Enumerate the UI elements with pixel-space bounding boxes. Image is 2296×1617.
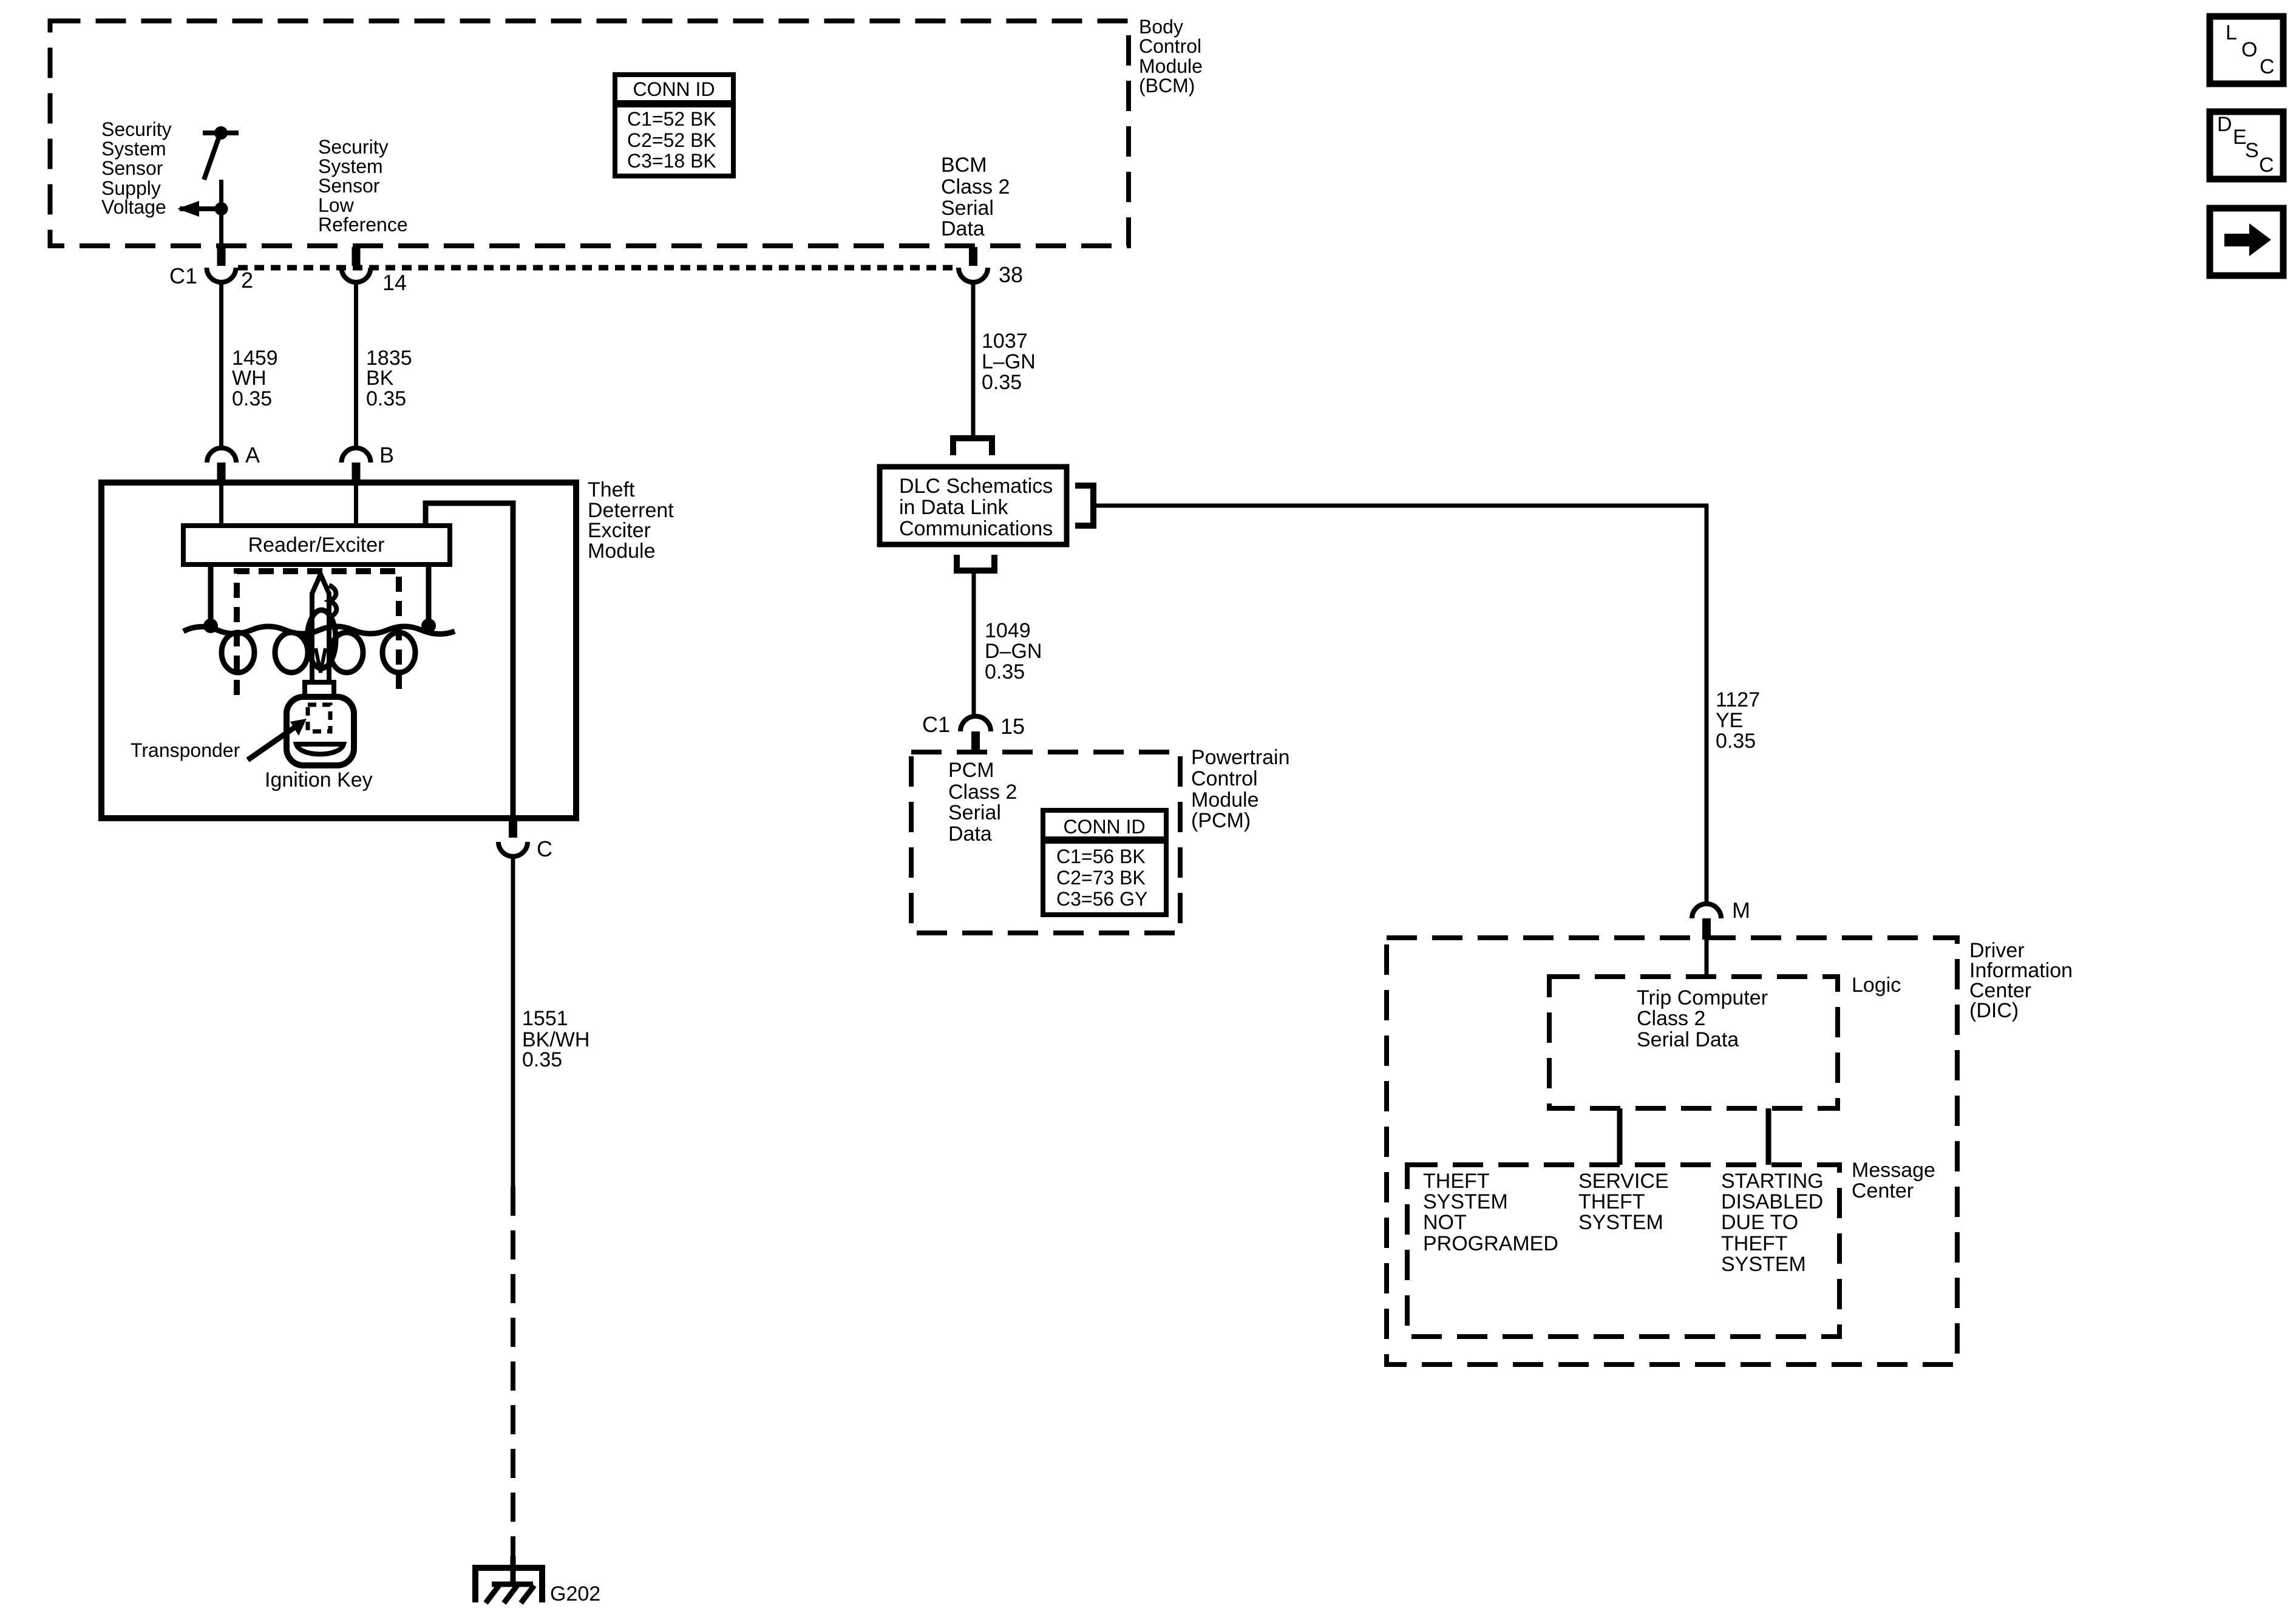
- svg-text:0.35: 0.35: [366, 387, 406, 410]
- svg-text:Ignition Key: Ignition Key: [265, 768, 373, 792]
- svg-text:Class 2: Class 2: [941, 175, 1010, 198]
- svg-text:THEFT: THEFT: [1578, 1190, 1645, 1213]
- svg-text:CONN ID: CONN ID: [633, 78, 715, 100]
- svg-text:15: 15: [1000, 714, 1025, 739]
- svg-text:S: S: [2245, 139, 2259, 162]
- svg-text:SYSTEM: SYSTEM: [1578, 1211, 1663, 1234]
- svg-text:Control: Control: [1191, 767, 1258, 790]
- svg-text:Serial: Serial: [941, 197, 994, 220]
- svg-text:Module: Module: [1139, 55, 1203, 77]
- svg-text:SYSTEM: SYSTEM: [1721, 1253, 1806, 1276]
- svg-text:B: B: [379, 442, 394, 467]
- svg-text:C: C: [537, 836, 552, 861]
- svg-text:THEFT: THEFT: [1721, 1232, 1788, 1255]
- svg-text:Sensor: Sensor: [101, 157, 163, 179]
- svg-text:YE: YE: [1716, 709, 1743, 732]
- svg-text:BCM: BCM: [941, 154, 987, 177]
- svg-text:PROGRAMED: PROGRAMED: [1423, 1232, 1558, 1255]
- svg-text:C1=52 BK: C1=52 BK: [627, 108, 716, 130]
- svg-text:2: 2: [241, 268, 253, 293]
- svg-text:Logic: Logic: [1852, 974, 1901, 997]
- svg-text:Control: Control: [1139, 35, 1201, 57]
- svg-text:SYSTEM: SYSTEM: [1423, 1190, 1508, 1213]
- svg-text:Reference: Reference: [318, 214, 408, 236]
- svg-text:C1: C1: [922, 712, 950, 737]
- svg-text:Serial: Serial: [948, 801, 1001, 824]
- svg-text:Message: Message: [1852, 1159, 1935, 1182]
- svg-text:Reader/Exciter: Reader/Exciter: [248, 534, 385, 557]
- svg-text:C2=73 BK: C2=73 BK: [1056, 867, 1146, 889]
- svg-text:Data: Data: [948, 822, 992, 846]
- svg-text:System: System: [318, 155, 383, 177]
- svg-text:CONN ID: CONN ID: [1063, 816, 1145, 838]
- svg-text:Sensor: Sensor: [318, 175, 380, 197]
- svg-text:Module: Module: [1191, 788, 1259, 812]
- svg-text:Serial Data: Serial Data: [1637, 1028, 1739, 1051]
- svg-text:C3=18 BK: C3=18 BK: [627, 150, 716, 172]
- svg-text:Low: Low: [318, 194, 355, 216]
- svg-text:G202: G202: [550, 1582, 600, 1605]
- svg-text:BK: BK: [366, 367, 394, 390]
- svg-text:Theft: Theft: [588, 478, 635, 501]
- svg-text:(PCM): (PCM): [1191, 809, 1251, 832]
- svg-text:PCM: PCM: [948, 759, 994, 782]
- svg-text:L–GN: L–GN: [982, 350, 1036, 373]
- svg-text:C3=56 GY: C3=56 GY: [1056, 888, 1147, 910]
- svg-text:Trip Computer: Trip Computer: [1637, 986, 1768, 1009]
- svg-text:in Data Link: in Data Link: [899, 496, 1009, 519]
- svg-text:Security: Security: [101, 118, 172, 140]
- svg-text:L: L: [2226, 21, 2237, 44]
- svg-text:O: O: [2241, 38, 2257, 61]
- svg-text:1127: 1127: [1716, 688, 1760, 711]
- svg-text:38: 38: [999, 262, 1023, 287]
- svg-text:DUE TO: DUE TO: [1721, 1211, 1798, 1234]
- svg-text:D: D: [2217, 113, 2232, 136]
- svg-text:SERVICE: SERVICE: [1578, 1170, 1669, 1193]
- svg-text:0.35: 0.35: [982, 371, 1022, 394]
- svg-text:14: 14: [382, 270, 407, 295]
- svg-text:1037: 1037: [982, 330, 1028, 353]
- svg-text:Center: Center: [1852, 1179, 1914, 1202]
- svg-text:C: C: [2259, 154, 2274, 177]
- svg-text:Class 2: Class 2: [1637, 1007, 1705, 1030]
- svg-text:D–GN: D–GN: [985, 640, 1042, 663]
- svg-text:C1=56 BK: C1=56 BK: [1056, 846, 1146, 867]
- svg-text:M: M: [1732, 898, 1750, 923]
- svg-text:0.35: 0.35: [1716, 730, 1756, 753]
- svg-text:C1: C1: [169, 263, 197, 288]
- svg-text:Transponder: Transponder: [131, 739, 240, 761]
- svg-text:WH: WH: [232, 367, 267, 390]
- svg-text:Module: Module: [588, 540, 656, 563]
- svg-text:DISABLED: DISABLED: [1721, 1190, 1823, 1213]
- svg-text:0.35: 0.35: [985, 660, 1025, 683]
- svg-text:Class 2: Class 2: [948, 781, 1017, 804]
- svg-text:Voltage: Voltage: [101, 196, 166, 218]
- svg-text:A: A: [245, 442, 260, 467]
- svg-text:Communications: Communications: [899, 517, 1053, 540]
- svg-text:0.35: 0.35: [522, 1048, 562, 1071]
- svg-text:DLC Schematics: DLC Schematics: [899, 475, 1053, 498]
- svg-text:Security: Security: [318, 136, 389, 158]
- svg-text:C2=52 BK: C2=52 BK: [627, 129, 716, 151]
- svg-text:C: C: [2260, 55, 2275, 78]
- svg-text:1551: 1551: [522, 1007, 568, 1030]
- svg-text:(DIC): (DIC): [1969, 999, 2019, 1022]
- svg-text:NOT: NOT: [1423, 1211, 1467, 1234]
- svg-text:Body: Body: [1139, 16, 1183, 38]
- svg-text:Exciter: Exciter: [588, 519, 651, 542]
- svg-text:Data: Data: [941, 217, 985, 240]
- svg-text:1049: 1049: [985, 619, 1031, 642]
- svg-text:Powertrain: Powertrain: [1191, 746, 1290, 769]
- svg-text:STARTING: STARTING: [1721, 1170, 1824, 1193]
- svg-text:0.35: 0.35: [232, 387, 272, 410]
- svg-text:System: System: [101, 138, 166, 160]
- svg-text:(BCM): (BCM): [1139, 75, 1195, 97]
- svg-text:THEFT: THEFT: [1423, 1170, 1490, 1193]
